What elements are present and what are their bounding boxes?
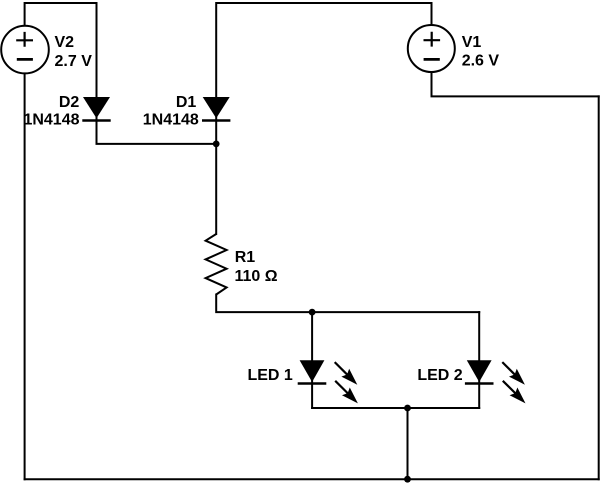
wire node N1 to R1 top: [215, 144, 217, 234]
wire V1.- to right rail: [432, 73, 599, 96]
wire D1 cathode to node N1: [215, 117, 217, 144]
LED1 emission arrow 1: [335, 362, 358, 385]
LED2 emission arrow 2: [503, 381, 526, 404]
resistor R1: [206, 234, 227, 295]
wire bottom rail tail to ground wire: [407, 408, 409, 479]
svg-text:1N4148: 1N4148: [23, 111, 79, 128]
wire right rail down: [598, 96, 600, 479]
node junction dot at LED1 anode branch: [309, 309, 316, 316]
svg-text:110 Ω: 110 Ω: [235, 268, 278, 285]
wire LED bottom rail: [312, 407, 479, 409]
svg-text:2.6 V: 2.6 V: [462, 52, 500, 69]
LED2: [465, 360, 494, 383]
LED2 emission arrow 1: [502, 362, 525, 385]
voltage source V2: [1, 26, 49, 74]
wire bottom return: [25, 478, 599, 480]
svg-text:LED 2: LED 2: [417, 367, 462, 384]
svg-text:1N4148: 1N4148: [143, 111, 199, 128]
wire D1 anode to V1.+ (top-right): [216, 3, 431, 97]
LED1: [298, 360, 327, 383]
wire D2 cathode to node N1: [97, 117, 217, 144]
wire R1 bottom to LED rail corner: [216, 295, 479, 313]
LED1 emission arrow 2: [335, 381, 358, 404]
wire LED2 anode branch: [478, 312, 480, 360]
svg-text:D2: D2: [59, 94, 80, 111]
diode D2: [82, 97, 110, 121]
svg-text:V2: V2: [55, 34, 75, 51]
svg-text:V1: V1: [462, 34, 482, 51]
wire V2.+ to D2 anode (top-left): [25, 3, 97, 97]
wire LED2 cathode to bottom rail: [478, 381, 480, 409]
wire LED1 anode branch: [311, 312, 313, 360]
node junction dot on bottom return: [404, 476, 411, 483]
svg-text:LED 1: LED 1: [247, 367, 292, 384]
voltage source V1: [408, 25, 455, 72]
wire LED1 cathode to bottom rail: [311, 381, 313, 409]
diode D1: [202, 97, 230, 121]
node junction dot on LED bottom rail: [404, 405, 411, 412]
wire V2.- to bottom return (left rail): [24, 74, 26, 480]
svg-text:2.7 V: 2.7 V: [55, 53, 93, 70]
svg-text:R1: R1: [235, 249, 256, 266]
svg-text:D1: D1: [176, 94, 197, 111]
node N1 junction dot (D1/D2 cathodes): [213, 141, 220, 148]
